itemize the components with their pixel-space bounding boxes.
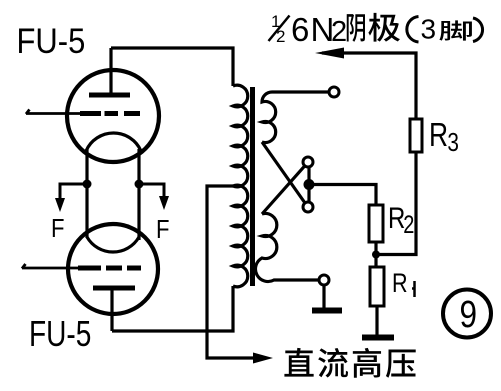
svg-text:3: 3 — [447, 128, 459, 157]
wire F branch left — [60, 184, 87, 201]
wire F branch right — [139, 184, 164, 199]
tube V1 plate lead — [109, 48, 112, 97]
wire between X terminals — [307, 167, 310, 202]
node junction dot left F — [83, 180, 92, 189]
svg-text:R: R — [392, 269, 408, 299]
wire X mid to R2 — [309, 185, 376, 206]
tube V2 FU-5 envelope — [68, 224, 158, 314]
transformer secondary top winding — [262, 92, 329, 143]
label 极 — [368, 13, 400, 42]
svg-text:3: 3 — [421, 14, 437, 45]
label 流 — [318, 348, 348, 378]
tube V2 plate lead — [110, 290, 113, 331]
arrowhead F left — [55, 198, 65, 212]
label R1 subscript stroke — [412, 281, 415, 297]
figure number circle — [443, 290, 491, 338]
terminal circle X bottom — [303, 202, 313, 212]
label R3 — [429, 117, 459, 156]
svg-text:FU-5: FU-5 — [17, 22, 86, 61]
terminal circle secondary top — [329, 87, 339, 97]
label 阴 — [347, 14, 365, 42]
wire V2 plate to primary bottom — [112, 286, 233, 331]
resistor R1 body — [370, 267, 384, 306]
wire V1 filament leg right — [137, 149, 140, 240]
tube V2 grid dashes — [78, 266, 141, 271]
arrowhead F right — [159, 196, 169, 210]
wire primary center tap to DC arrow — [207, 186, 253, 358]
label 高 — [353, 348, 381, 378]
tube V2 filament arc — [87, 237, 139, 252]
tube V1 FU-5 envelope — [67, 70, 159, 162]
node junction dot right F — [135, 180, 144, 189]
transformer primary top winding — [233, 85, 248, 187]
tube V2 plate bar — [93, 286, 135, 291]
label R2 — [388, 200, 414, 238]
ground symbol secondary — [312, 308, 342, 314]
paren ) — [473, 18, 483, 42]
svg-text:F: F — [51, 214, 64, 243]
wire R2 to R1 — [374, 242, 377, 267]
wire V1 filament leg left — [85, 149, 88, 238]
paren ( — [407, 17, 419, 43]
label R1 — [392, 269, 408, 299]
svg-text:2: 2 — [331, 16, 347, 48]
node junction X mid — [304, 179, 315, 190]
tube V1 grid lead — [26, 110, 84, 115]
transformer core — [250, 87, 255, 286]
svg-text:2: 2 — [276, 27, 285, 46]
svg-text:F: F — [156, 215, 169, 244]
svg-text:2: 2 — [403, 211, 414, 239]
tube V2 grid lead — [22, 264, 78, 269]
label 直 — [284, 348, 313, 377]
wire secondary bottom terminal to ground — [322, 285, 325, 308]
wire R1 to ground — [375, 306, 378, 335]
label 1/2 fraction — [269, 12, 290, 46]
wire V1 plate to primary top — [111, 48, 233, 86]
wire R3 top to cathode arrow — [322, 53, 416, 119]
wire R2/R1 node up to R3 bottom — [376, 152, 416, 255]
label 脚 — [439, 20, 472, 40]
svg-text:FU-5: FU-5 — [29, 314, 91, 354]
wire X diagonal coil-top to bottom terminal — [262, 142, 305, 203]
arrowhead to 6N2 cathode — [315, 48, 344, 59]
node junction R2/R1 — [372, 251, 380, 259]
resistor R3 body — [410, 119, 422, 152]
ground symbol R1 — [362, 335, 394, 341]
transformer primary bottom winding — [233, 185, 248, 287]
terminal circle X top — [303, 157, 313, 167]
tube V1 grid dashes — [80, 111, 140, 116]
resistor R2 body — [369, 205, 383, 242]
svg-text:6: 6 — [291, 11, 309, 48]
transformer secondary bottom winding — [255, 214, 319, 282]
svg-text:9: 9 — [460, 293, 478, 335]
tube V1 filament arc — [86, 133, 141, 151]
svg-text:R: R — [429, 117, 448, 153]
arrowhead DC high voltage — [253, 353, 273, 364]
label 压 — [386, 349, 416, 377]
tube V1 plate bar — [89, 93, 130, 98]
terminal circle secondary bottom — [319, 275, 329, 285]
wire X diagonal top terminal to coil-bottom — [262, 166, 305, 214]
